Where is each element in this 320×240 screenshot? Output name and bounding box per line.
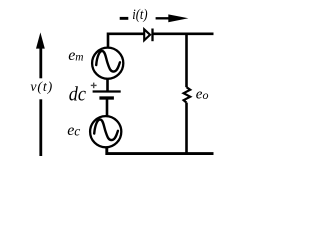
wire battery to ec xyxy=(106,98,109,117)
voltage arrow v(t) shaft upper xyxy=(39,48,42,78)
svg-text:ec: ec xyxy=(67,122,80,139)
battery dc long plate xyxy=(93,90,121,92)
bottom wire with ec corner xyxy=(107,148,214,154)
wire down from top to resistor xyxy=(185,33,188,88)
wire em top corner to diode xyxy=(108,34,144,48)
svg-text:v(t): v(t) xyxy=(30,79,52,95)
resistor eo zigzag xyxy=(184,87,191,102)
wire diode to right end xyxy=(153,32,214,35)
svg-text:dc: dc xyxy=(69,83,86,105)
voltage arrow v(t) shaft lower xyxy=(39,99,42,156)
diode D xyxy=(144,29,152,42)
wire em to battery xyxy=(106,79,109,92)
current arrow xyxy=(156,14,189,22)
minus sign xyxy=(120,17,129,20)
ac source ec xyxy=(90,116,121,147)
ac source em xyxy=(92,48,123,79)
svg-text:em: em xyxy=(68,47,83,64)
battery dc short plate xyxy=(99,96,114,99)
wire resistor to bottom xyxy=(185,103,188,154)
svg-text:i(t): i(t) xyxy=(132,7,148,23)
battery plus sign xyxy=(91,83,97,89)
voltage arrow head xyxy=(36,32,45,48)
svg-text:eo: eo xyxy=(196,87,209,103)
